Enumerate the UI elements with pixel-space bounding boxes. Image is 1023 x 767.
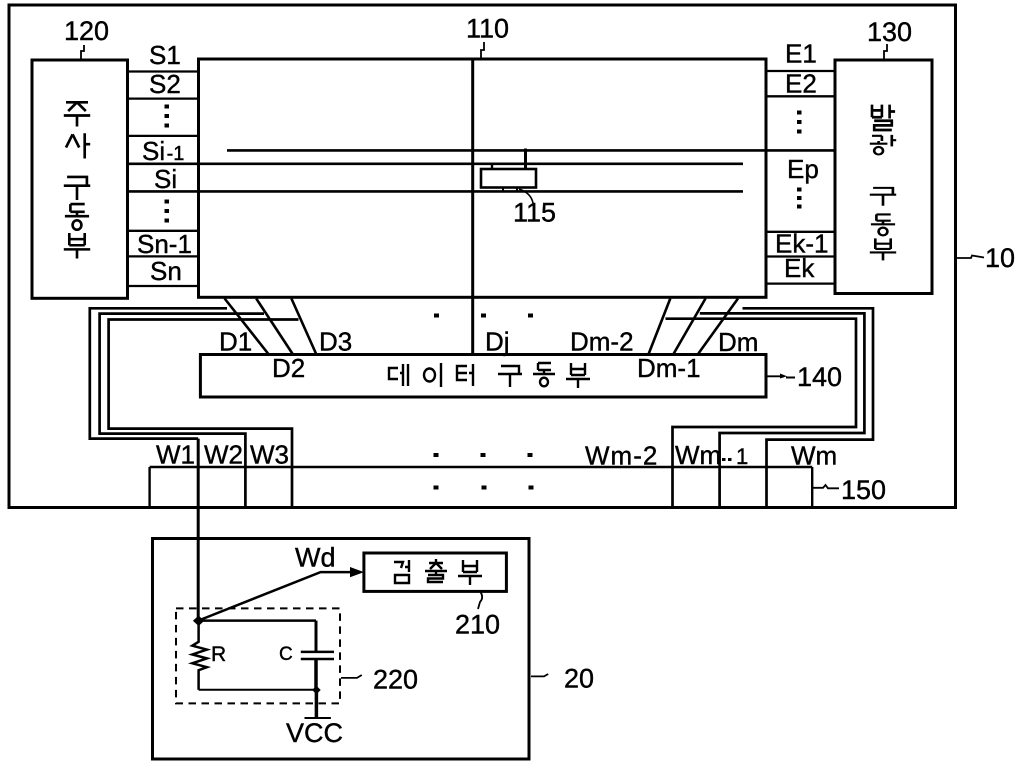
svg-text:115: 115 (513, 198, 556, 228)
svg-text:Wm: Wm (675, 440, 721, 470)
svg-text:E1: E1 (785, 39, 817, 69)
svg-text:Dm: Dm (718, 327, 758, 357)
svg-text:110: 110 (466, 14, 509, 44)
svg-text:W1: W1 (156, 440, 195, 470)
svg-text:1: 1 (736, 444, 748, 469)
svg-text:VCC: VCC (286, 718, 343, 748)
svg-text:Wd: Wd (295, 543, 336, 573)
svg-text:20: 20 (564, 664, 594, 694)
svg-text:S1: S1 (149, 40, 181, 70)
svg-text:Dj: Dj (485, 327, 510, 357)
svg-text:140: 140 (797, 362, 842, 392)
svg-text:S2: S2 (149, 69, 181, 99)
svg-text:Wm-2: Wm-2 (585, 441, 658, 471)
svg-text:Sn-1: Sn-1 (137, 229, 192, 259)
svg-text:Sn: Sn (150, 256, 182, 286)
svg-text:W2: W2 (204, 440, 243, 470)
svg-text:R: R (211, 643, 226, 666)
svg-text:10: 10 (985, 243, 1015, 273)
svg-text:W3: W3 (250, 440, 289, 470)
svg-text:130: 130 (867, 17, 912, 47)
svg-text:E2: E2 (785, 69, 817, 99)
svg-text:Wm: Wm (791, 441, 837, 471)
svg-text:D1: D1 (219, 327, 252, 357)
svg-text:Si: Si (154, 164, 177, 194)
svg-text:210: 210 (455, 610, 500, 640)
svg-text:D3: D3 (319, 327, 352, 357)
svg-text:150: 150 (841, 475, 886, 505)
svg-text:Dm-1: Dm-1 (637, 353, 701, 383)
svg-text:Dm-2: Dm-2 (570, 327, 634, 357)
svg-text:220: 220 (373, 665, 418, 695)
svg-text:Ek: Ek (784, 253, 815, 283)
svg-text:Ep: Ep (787, 154, 819, 184)
svg-text:C: C (279, 644, 293, 665)
svg-text:D2: D2 (272, 353, 305, 383)
svg-text:120: 120 (64, 16, 109, 46)
